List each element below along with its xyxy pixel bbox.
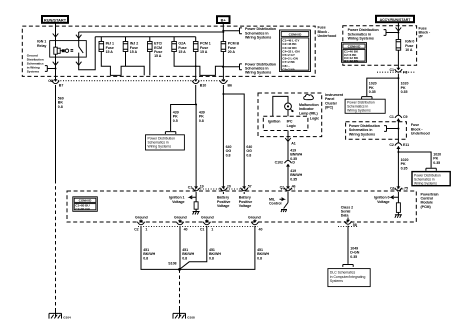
label IGN 1 Relay xyxy=(37,40,46,48)
relay linkage xyxy=(71,50,74,52)
PCM top dotted row xyxy=(193,188,249,190)
label Fuse Block - I/P xyxy=(419,26,431,38)
svg-text:E11: E11 xyxy=(403,143,409,147)
IP connector dotted row xyxy=(377,71,415,73)
ground G104 xyxy=(49,308,71,320)
svg-text:15 A: 15 A xyxy=(106,50,114,54)
wire fuse bottom comb left xyxy=(101,52,144,76)
arrow coil out xyxy=(53,62,59,65)
connector B10 xyxy=(192,79,206,87)
fuse block underhood connector dotted row xyxy=(50,80,228,82)
PCM dashed box xyxy=(67,191,416,222)
svg-text:Wiring Systems: Wiring Systems xyxy=(148,145,172,149)
svg-text:RUN/START: RUN/START xyxy=(44,17,67,22)
wire fuse top stubs xyxy=(101,37,195,42)
svg-text:Wiring Systems: Wiring Systems xyxy=(414,181,437,185)
ref box power distribution 1020 left xyxy=(345,97,385,114)
svg-text:15 A: 15 A xyxy=(200,50,208,54)
svg-text:Ground: Ground xyxy=(201,215,214,219)
splice S108 xyxy=(168,262,181,271)
svg-text:Ground: Ground xyxy=(135,215,148,219)
svg-text:CONN ID: CONN ID xyxy=(289,32,303,36)
conn id table IP xyxy=(342,43,367,64)
svg-text:G108: G108 xyxy=(187,316,195,320)
wire 1020 lower xyxy=(398,146,408,187)
relay coil xyxy=(54,46,57,57)
ref bracket ground distribution xyxy=(27,54,57,74)
svg-text:C2: C2 xyxy=(134,227,139,231)
wire relay switch out to switched bus riser xyxy=(79,37,96,70)
svg-text:1: 1 xyxy=(145,227,147,231)
svg-text:C2: C2 xyxy=(280,186,285,190)
svg-text:10 A: 10 A xyxy=(405,48,413,52)
svg-text:C1: C1 xyxy=(188,186,193,190)
fuse IGN0 xyxy=(396,40,414,53)
label IPC Logic xyxy=(287,120,296,128)
svg-text:CONN ID: CONN ID xyxy=(348,44,362,48)
svg-text:0.8: 0.8 xyxy=(182,256,187,260)
svg-text:B10: B10 xyxy=(200,84,206,88)
svg-text:40: 40 xyxy=(184,227,188,231)
svg-text:46: 46 xyxy=(292,184,296,188)
svg-text:19: 19 xyxy=(200,184,204,188)
wire PCM1 fuse drop xyxy=(195,52,197,80)
svg-text:B6: B6 xyxy=(228,84,233,88)
fuse PCMB xyxy=(221,42,239,55)
PCM bottom dotted row xyxy=(138,226,258,228)
wire splice to ground xyxy=(179,269,181,308)
svg-text:C2=80 GN: C2=80 GN xyxy=(75,207,90,211)
node ACCY/RUN/START xyxy=(376,16,414,22)
label Fuse Block - Underhood xyxy=(318,26,337,38)
svg-text:C1: C1 xyxy=(390,187,395,191)
fuse INJ1 xyxy=(99,42,114,55)
wire through passthrough xyxy=(397,119,399,144)
svg-text:15 A: 15 A xyxy=(154,54,162,58)
svg-text:0.8: 0.8 xyxy=(199,119,204,123)
svg-text:Control: Control xyxy=(269,202,281,206)
svg-text:Wiring Systems: Wiring Systems xyxy=(245,71,271,75)
battery positive voltage 57 xyxy=(239,192,252,208)
svg-text:Logic: Logic xyxy=(287,124,296,128)
wire MIL output A1 xyxy=(285,131,302,161)
arrow relay switch xyxy=(76,35,82,39)
label Powertrain Control Module xyxy=(421,192,439,209)
svg-text:Underhood: Underhood xyxy=(318,34,337,38)
svg-text:Data: Data xyxy=(341,214,350,218)
svg-text:20 A: 20 A xyxy=(228,50,236,54)
svg-text:F8: F8 xyxy=(403,71,407,75)
svg-text:C1: C1 xyxy=(389,115,394,119)
connector C1 C9 xyxy=(389,115,407,121)
svg-text:D: D xyxy=(292,161,295,165)
wire 439 main xyxy=(196,85,205,187)
fuse O2A xyxy=(172,42,187,55)
conn id table PCM xyxy=(73,197,98,212)
relay diode xyxy=(57,48,69,53)
svg-text:57: 57 xyxy=(248,184,252,188)
pin C2 46 xyxy=(280,184,296,190)
pin 40 ground right xyxy=(251,220,262,232)
battery positive voltage 20 xyxy=(217,192,230,208)
svg-text:0.35: 0.35 xyxy=(433,161,440,165)
label Malfunction Indicator Lamp xyxy=(299,103,319,115)
svg-text:C9=2 NA: C9=2 NA xyxy=(282,67,295,71)
svg-text:Relay: Relay xyxy=(37,44,46,48)
fuse block underhood dashed box xyxy=(22,26,315,76)
pin 40 ground xyxy=(176,220,187,232)
svg-text:C4=12 BN: C4=12 BN xyxy=(344,59,359,63)
svg-text:Logic: Logic xyxy=(310,116,319,120)
label Instrument Panel Cluster xyxy=(325,93,344,110)
svg-text:Wiring Systems: Wiring Systems xyxy=(245,36,271,40)
I/P fuse block dashed box xyxy=(343,26,417,66)
lamp MIL xyxy=(273,96,293,116)
svg-text:0.8: 0.8 xyxy=(246,153,251,157)
underhood pass-through dashed box xyxy=(346,122,407,140)
node switched bus xyxy=(95,36,196,38)
arrow into box xyxy=(53,34,59,38)
wire 1020 right branch xyxy=(397,151,441,168)
svg-text:Wiring Systems: Wiring Systems xyxy=(347,109,371,113)
connector B6 xyxy=(220,79,232,87)
svg-text:0.8: 0.8 xyxy=(143,256,148,260)
svg-text:Wiring Systems: Wiring Systems xyxy=(348,37,374,41)
ref box DLC schematics xyxy=(328,269,370,287)
svg-text:Voltage: Voltage xyxy=(217,204,229,208)
svg-text:(IPC): (IPC) xyxy=(325,106,334,110)
logic cloud xyxy=(304,95,314,100)
ref bracket B+ power distribution xyxy=(222,27,276,39)
svg-text:Systems: Systems xyxy=(330,279,343,283)
ignition 1 voltage entry xyxy=(169,192,200,215)
svg-text:(PCM): (PCM) xyxy=(421,205,432,209)
wire 1049 to DLC xyxy=(343,226,360,267)
ref bracket PCMB power distribution xyxy=(223,62,276,74)
svg-text:G104: G104 xyxy=(63,316,71,320)
junction dots xyxy=(222,31,224,33)
svg-text:Ground: Ground xyxy=(248,215,261,219)
svg-text:B7: B7 xyxy=(59,84,64,88)
pin C1 1 ground xyxy=(200,220,213,232)
ground G108 xyxy=(173,308,195,320)
wire ETC drop xyxy=(149,52,151,76)
node RUN/START xyxy=(42,16,68,23)
svg-text:Voltage: Voltage xyxy=(239,204,251,208)
svg-text:1: 1 xyxy=(211,227,213,231)
svg-text:0.35: 0.35 xyxy=(401,166,408,170)
relay IGN1 box xyxy=(50,41,87,58)
fuse ETC/ECM xyxy=(148,42,163,59)
wire 439 branch xyxy=(171,104,198,132)
svg-text:C9: C9 xyxy=(403,115,408,119)
class 2 serial data xyxy=(341,205,357,227)
svg-text:0.35: 0.35 xyxy=(350,255,357,259)
pin 57 xyxy=(241,184,252,190)
pin C1 75 xyxy=(390,186,408,190)
svg-text:0.5: 0.5 xyxy=(173,119,178,123)
svg-text:0.35: 0.35 xyxy=(290,177,297,181)
svg-text:0.35: 0.35 xyxy=(369,90,376,94)
arrow into IP box xyxy=(396,28,402,32)
ground labels xyxy=(135,215,261,219)
node B+ xyxy=(217,16,230,23)
svg-text:58: 58 xyxy=(353,223,357,227)
connector C1/F8 xyxy=(390,68,408,75)
wire 560 BK xyxy=(56,85,64,308)
svg-text:15 A: 15 A xyxy=(178,50,186,54)
svg-text:Systems: Systems xyxy=(27,69,40,73)
fuse INJ2 xyxy=(123,42,138,55)
svg-text:B+: B+ xyxy=(221,18,227,23)
svg-text:C1: C1 xyxy=(200,227,205,231)
wire INJ2 drop xyxy=(125,52,127,67)
arrow switch out xyxy=(76,62,82,65)
fuse PCM1 xyxy=(193,42,210,55)
wire relay switch riser xyxy=(78,32,80,41)
svg-text:15 A: 15 A xyxy=(130,50,138,54)
svg-text:0.8: 0.8 xyxy=(209,256,214,260)
conn id table underhood xyxy=(280,30,311,72)
connector C102 D xyxy=(275,161,303,188)
ref bracket underhood pass power distribution xyxy=(349,124,400,136)
svg-text:0.8: 0.8 xyxy=(226,153,231,157)
svg-text:I/P: I/P xyxy=(419,35,424,39)
ref box power distribution 439 xyxy=(146,132,185,150)
wire O2A drop and comb right xyxy=(174,52,223,76)
wire IGN0 out xyxy=(397,50,399,69)
relay switch xyxy=(79,41,84,58)
wire relay coil out xyxy=(55,57,57,76)
connector C8/B7 xyxy=(48,76,63,87)
svg-text:Ignition: Ignition xyxy=(268,120,281,124)
svg-text:A1: A1 xyxy=(291,141,296,145)
wire B+ drop xyxy=(222,23,224,42)
ref box power distribution 1020 right xyxy=(412,168,450,185)
node B+ bus xyxy=(79,31,224,33)
IPC dashed box xyxy=(258,93,322,137)
MIL control driver xyxy=(269,192,288,212)
svg-text:S108: S108 xyxy=(168,262,176,266)
ignition 0 voltage entry xyxy=(374,192,402,218)
svg-text:Ground: Ground xyxy=(174,215,187,219)
svg-text:0.35: 0.35 xyxy=(401,90,408,94)
pin 20 xyxy=(220,184,231,190)
label Fuse Block - Underhood right xyxy=(411,123,430,135)
wire ACCY drop xyxy=(397,22,399,39)
svg-text:Voltage: Voltage xyxy=(377,200,389,204)
svg-text:75: 75 xyxy=(404,187,408,191)
svg-text:Underhood: Underhood xyxy=(411,132,430,136)
svg-text:40: 40 xyxy=(259,227,263,231)
svg-text:0.8: 0.8 xyxy=(257,256,262,260)
wire 640 right branch xyxy=(222,93,252,187)
svg-text:C102: C102 xyxy=(275,161,283,165)
svg-text:C2: C2 xyxy=(389,143,394,147)
wire RUN/START to relay coil xyxy=(55,23,57,46)
pin C2 1 ground xyxy=(134,220,147,232)
wires 451 to splice xyxy=(141,226,269,269)
IPC logic inner dashed box xyxy=(263,116,308,130)
wire 640 left xyxy=(223,85,231,187)
wire PCMB fuse drop xyxy=(222,52,224,80)
svg-text:C8: C8 xyxy=(48,79,53,83)
svg-text:0.8: 0.8 xyxy=(58,105,63,109)
svg-text:Voltage: Voltage xyxy=(172,200,184,204)
wire 1020 main and branch xyxy=(367,74,409,115)
pin C1 19 xyxy=(188,184,204,190)
svg-text:CONN ID: CONN ID xyxy=(79,199,93,203)
ref bracket IP power distribution xyxy=(348,28,400,40)
svg-text:Lamp (MIL): Lamp (MIL) xyxy=(299,111,319,115)
svg-text:20: 20 xyxy=(227,184,231,188)
svg-text:Wiring Systems: Wiring Systems xyxy=(349,132,375,136)
connector C2 E11 xyxy=(389,143,409,149)
svg-text:C1: C1 xyxy=(390,68,395,72)
svg-text:ACCY/RUN/START: ACCY/RUN/START xyxy=(380,18,412,22)
